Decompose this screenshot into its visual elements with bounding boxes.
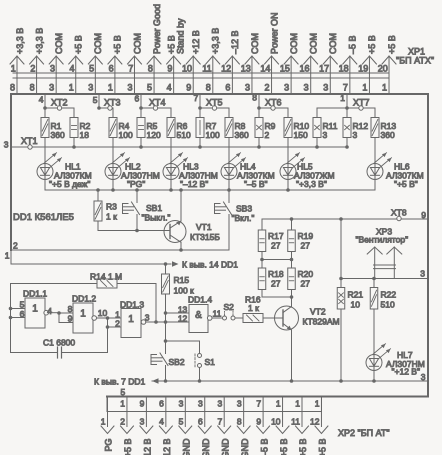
svg-text:COM: COM: [250, 33, 260, 54]
svg-text:6: 6: [225, 83, 230, 93]
svg-text:3: 3: [353, 130, 358, 140]
svg-text:R19: R19: [298, 231, 314, 241]
svg-text:"+3,3 В": "+3,3 В": [296, 179, 327, 189]
svg-text:VT1: VT1: [196, 222, 212, 232]
svg-text:10: 10: [351, 300, 361, 310]
svg-text:"Вкл.": "Вкл.": [232, 213, 255, 223]
svg-text:14: 14: [260, 64, 270, 74]
svg-text:"Вентилятор": "Вентилятор": [356, 235, 409, 245]
svg-text:SB1: SB1: [146, 203, 162, 213]
svg-text:100: 100: [206, 130, 220, 140]
svg-text:ХР2 "БП АТ": ХР2 "БП АТ": [338, 428, 390, 438]
svg-text:2: 2: [115, 318, 120, 328]
svg-text:5: 5: [179, 417, 184, 427]
svg-text:5: 5: [93, 95, 98, 105]
svg-text:–5 В: –5 В: [259, 439, 269, 455]
svg-text:XT1: XT1: [21, 136, 38, 146]
svg-text:1: 1: [69, 83, 74, 93]
svg-text:360: 360: [381, 130, 395, 140]
svg-text:8: 8: [30, 83, 35, 93]
svg-text:COM: COM: [93, 33, 103, 54]
svg-text:К выв. 7 DD1: К выв. 7 DD1: [94, 377, 146, 387]
svg-text:R15: R15: [174, 275, 190, 285]
svg-text:2: 2: [265, 83, 270, 93]
svg-text:DD1.2: DD1.2: [72, 294, 96, 304]
svg-text:GND: GND: [240, 438, 250, 455]
svg-text:9: 9: [68, 314, 73, 324]
svg-text:3: 3: [179, 399, 184, 409]
svg-text:3: 3: [323, 130, 328, 140]
svg-text:8: 8: [237, 417, 242, 427]
svg-text:3: 3: [88, 83, 93, 93]
svg-text:11: 11: [213, 308, 222, 318]
svg-text:7: 7: [193, 93, 198, 103]
svg-text:9: 9: [140, 399, 145, 409]
svg-text:+5 В: +5 В: [387, 35, 397, 54]
svg-text:1: 1: [80, 309, 86, 320]
svg-text:+3,3 В: +3,3 В: [34, 28, 44, 54]
svg-text:"PG": "PG": [127, 179, 145, 189]
svg-text:S1: S1: [205, 357, 216, 367]
svg-text:DD1.4: DD1.4: [188, 295, 212, 305]
svg-text:&: &: [195, 310, 202, 321]
svg-text:1: 1: [362, 83, 367, 93]
svg-text:R22: R22: [381, 290, 397, 300]
svg-text:"+12 В": "+12 В": [392, 367, 420, 377]
svg-text:3: 3: [284, 83, 289, 93]
svg-text:XT3: XT3: [104, 98, 121, 108]
svg-text:COM: COM: [132, 33, 142, 54]
svg-text:13: 13: [241, 64, 251, 74]
svg-text:5: 5: [20, 300, 25, 310]
svg-text:100: 100: [119, 130, 133, 140]
svg-text:16: 16: [299, 64, 309, 74]
svg-text:S2: S2: [224, 302, 235, 312]
svg-text:COM: COM: [289, 33, 299, 54]
svg-text:XT6: XT6: [265, 98, 282, 108]
svg-text:7: 7: [128, 64, 133, 74]
svg-text:12: 12: [310, 417, 320, 427]
svg-text:+12 В: +12 В: [191, 30, 201, 54]
svg-text:4: 4: [39, 95, 44, 105]
svg-text:4: 4: [47, 306, 52, 316]
svg-text:Power ON: Power ON: [269, 12, 279, 54]
svg-text:4: 4: [70, 64, 75, 74]
svg-text:1: 1: [315, 399, 320, 409]
svg-text:4: 4: [159, 417, 164, 427]
svg-text:+5 В: +5 В: [123, 439, 133, 455]
svg-text:6: 6: [198, 417, 203, 427]
svg-text:3: 3: [4, 140, 9, 150]
svg-text:COM: COM: [309, 33, 319, 54]
svg-text:R20: R20: [298, 269, 314, 279]
svg-text:+5 В: +5 В: [298, 439, 308, 455]
svg-text:7: 7: [217, 417, 222, 427]
svg-text:3: 3: [237, 399, 242, 409]
svg-text:11: 11: [291, 417, 300, 427]
svg-text:С1 6800: С1 6800: [43, 338, 75, 348]
svg-text:"БП АТХ": "БП АТХ": [396, 56, 434, 66]
svg-text:12: 12: [178, 313, 188, 323]
svg-text:3: 3: [304, 83, 309, 93]
svg-text:"+5 В деж": "+5 В деж": [49, 179, 90, 189]
svg-text:"–12 В": "–12 В": [180, 179, 208, 189]
svg-text:7: 7: [256, 399, 261, 409]
svg-text:9: 9: [167, 64, 172, 74]
svg-text:2: 2: [30, 64, 35, 74]
svg-text:COM: COM: [328, 33, 338, 54]
svg-text:6: 6: [134, 94, 139, 104]
svg-text:+5 В: +5 В: [318, 439, 328, 455]
svg-text:1: 1: [108, 83, 113, 93]
svg-text:1 к: 1 к: [106, 212, 117, 222]
svg-text:27: 27: [271, 241, 281, 251]
svg-text:1 к: 1 к: [248, 303, 259, 313]
svg-text:2: 2: [120, 417, 125, 427]
svg-text:8: 8: [68, 304, 73, 314]
svg-text:1: 1: [101, 417, 106, 427]
svg-text:9: 9: [421, 210, 426, 220]
svg-text:R17: R17: [268, 231, 284, 241]
svg-text:3: 3: [217, 399, 222, 409]
svg-text:3: 3: [245, 83, 250, 93]
svg-text:DD1.1: DD1.1: [23, 289, 47, 299]
svg-text:3: 3: [140, 417, 145, 427]
svg-text:510: 510: [381, 300, 395, 310]
svg-text:Power Good: Power Good: [152, 4, 162, 54]
svg-text:3: 3: [323, 83, 328, 93]
svg-text:3: 3: [198, 399, 203, 409]
svg-text:–12 В: –12 В: [162, 439, 172, 455]
svg-text:6: 6: [109, 64, 114, 74]
svg-text:DD1 К561ЛЕ5: DD1 К561ЛЕ5: [13, 212, 74, 223]
svg-text:XT5: XT5: [206, 98, 223, 108]
svg-text:150: 150: [294, 130, 308, 140]
svg-text:10: 10: [182, 64, 192, 74]
svg-text:SB3: SB3: [236, 204, 252, 214]
svg-text:6: 6: [20, 309, 25, 319]
svg-text:8: 8: [148, 64, 153, 74]
svg-text:"Выкл.": "Выкл.": [142, 213, 171, 223]
svg-text:"+5 В": "+5 В": [394, 179, 418, 189]
svg-text:R14 1 М: R14 1 М: [90, 272, 122, 282]
svg-text:3: 3: [49, 83, 54, 93]
svg-text:18: 18: [80, 130, 90, 140]
svg-text:+5 В: +5 В: [367, 35, 377, 54]
svg-text:1: 1: [128, 314, 134, 325]
svg-text:510: 510: [177, 130, 191, 140]
svg-text:+3,3 В: +3,3 В: [15, 28, 25, 54]
svg-text:+5 В: +5 В: [74, 35, 84, 54]
svg-text:1: 1: [120, 399, 125, 409]
svg-text:PG: PG: [104, 439, 114, 452]
svg-text:15: 15: [280, 64, 290, 74]
svg-text:11: 11: [202, 64, 211, 74]
svg-text:10: 10: [98, 308, 108, 318]
svg-text:17: 17: [319, 64, 329, 74]
svg-text:R21: R21: [348, 290, 364, 300]
svg-text:9: 9: [256, 417, 261, 427]
svg-text:27: 27: [301, 279, 311, 289]
svg-text:GND: GND: [201, 438, 211, 455]
svg-text:XT7: XT7: [353, 98, 370, 108]
svg-text:3: 3: [420, 269, 425, 279]
svg-text:120: 120: [147, 130, 161, 140]
svg-text:"–5 В": "–5 В": [244, 179, 268, 189]
svg-text:18: 18: [339, 64, 349, 74]
svg-text:–5 В: –5 В: [348, 35, 358, 54]
svg-text:XT4: XT4: [149, 98, 166, 108]
svg-text:1: 1: [295, 399, 300, 409]
svg-text:+5 В: +5 В: [113, 35, 123, 54]
svg-text:8: 8: [10, 83, 15, 93]
svg-text:R18: R18: [268, 269, 284, 279]
svg-text:20: 20: [378, 64, 388, 74]
svg-text:1: 1: [382, 83, 387, 93]
svg-text:–12 В: –12 В: [230, 30, 240, 54]
svg-text:XT8: XT8: [391, 208, 407, 218]
svg-text:1: 1: [5, 251, 10, 261]
svg-text:5: 5: [89, 64, 94, 74]
svg-text:2: 2: [265, 130, 270, 140]
svg-text:XT2: XT2: [51, 98, 68, 108]
svg-text:К выв. 14 DD1: К выв. 14 DD1: [182, 260, 238, 270]
svg-text:GND: GND: [220, 438, 230, 455]
svg-text:9: 9: [186, 83, 191, 93]
svg-text:360: 360: [235, 130, 249, 140]
svg-text:10: 10: [271, 417, 281, 427]
svg-text:+3,3 В: +3,3 В: [211, 28, 221, 54]
svg-text:3: 3: [145, 312, 150, 322]
svg-text:КТ315Б: КТ315Б: [190, 232, 220, 242]
svg-text:3: 3: [127, 83, 132, 93]
svg-text:VT2: VT2: [310, 307, 326, 317]
svg-text:360: 360: [51, 130, 65, 140]
svg-text:7: 7: [343, 83, 348, 93]
svg-text:SB2: SB2: [169, 357, 185, 367]
svg-text:Stand by: Stand by: [176, 18, 186, 54]
svg-text:3: 3: [50, 64, 55, 74]
svg-text:1: 1: [276, 399, 281, 409]
svg-text:8: 8: [206, 83, 211, 93]
svg-text:19: 19: [358, 64, 368, 74]
svg-text:1: 1: [11, 64, 16, 74]
svg-text:КТ829АМ: КТ829АМ: [303, 317, 340, 327]
svg-text:4: 4: [167, 83, 172, 93]
svg-text:+12 В: +12 В: [143, 439, 153, 455]
svg-text:3: 3: [421, 372, 426, 382]
svg-text:1: 1: [32, 304, 38, 315]
svg-text:1: 1: [340, 93, 345, 103]
svg-text:27: 27: [271, 279, 281, 289]
svg-text:R3: R3: [106, 202, 117, 212]
svg-text:12: 12: [221, 64, 231, 74]
svg-text:5: 5: [121, 387, 126, 397]
svg-text:COM: COM: [54, 33, 64, 54]
svg-text:5: 5: [147, 83, 152, 93]
svg-text:GND: GND: [182, 438, 192, 455]
svg-text:2: 2: [13, 241, 18, 251]
svg-text:+5 В: +5 В: [279, 439, 289, 455]
svg-text:8: 8: [252, 93, 257, 103]
svg-text:6: 6: [159, 399, 164, 409]
svg-text:27: 27: [301, 241, 311, 251]
